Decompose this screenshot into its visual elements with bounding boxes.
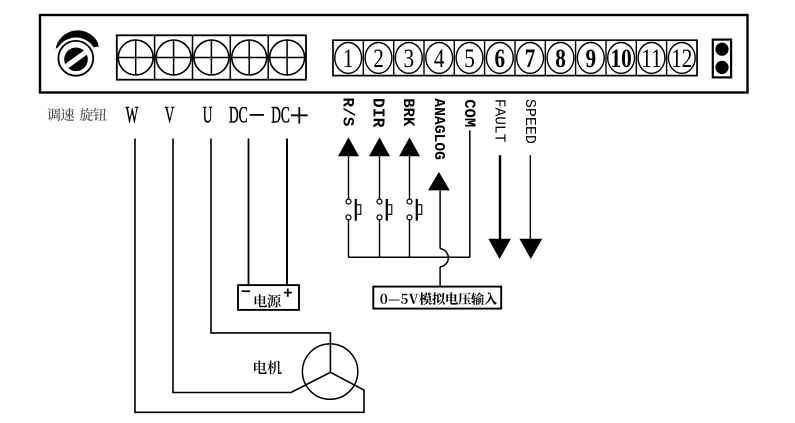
pushbutton switch R/S: lower contact — [346, 215, 351, 220]
terminal pin 4 — [426, 43, 453, 74]
terminal pin 2 — [365, 43, 392, 74]
power supply box (电源) — [238, 285, 299, 310]
driver panel outline — [40, 15, 748, 93]
input arrow DIR — [369, 137, 390, 156]
label 调速旋钮 (speed knob) — [47, 108, 107, 121]
terminal pin 5 — [456, 43, 483, 74]
svg-text:2: 2 — [373, 45, 384, 74]
pushbutton switch DIR: actuator bar — [386, 199, 388, 221]
terminal block separator — [575, 40, 577, 75]
terminal block separator — [267, 35, 269, 79]
svg-text:COM: COM — [460, 99, 478, 127]
svg-text:ANAGLOG: ANAGLOG — [430, 98, 446, 160]
wire DIR lower — [379, 220, 381, 257]
output arrow FAULT — [488, 239, 511, 259]
terminal pin 9 — [577, 43, 604, 74]
svg-text:SPEED: SPEED — [521, 99, 538, 144]
wire ANAGLOG crossover hop — [440, 249, 448, 267]
svg-text:12: 12 — [671, 45, 692, 74]
svg-text:DIR: DIR — [369, 98, 388, 128]
terminal pin 3 — [395, 43, 422, 74]
input arrow R/S — [338, 137, 359, 156]
terminal pin 11 — [638, 43, 665, 74]
svg-text:9: 9 — [585, 45, 596, 74]
wire SPEED — [529, 155, 531, 239]
terminal block separator — [154, 35, 156, 79]
label 电机 — [254, 361, 267, 375]
wire U (phase U to motor) — [211, 139, 330, 373]
analog input box (0-5V模拟电压输入) — [373, 287, 501, 309]
pushbutton switch R/S: button cap — [357, 205, 361, 215]
screw terminal DC- — [232, 40, 267, 75]
common bus wire — [349, 256, 470, 258]
input arrow ANAGLOG — [428, 172, 450, 191]
screw terminal U — [194, 40, 229, 75]
label 电源 — [255, 294, 267, 307]
pushbutton switch DIR: lower contact — [377, 215, 382, 220]
terminal pin 8 — [547, 43, 574, 74]
wire ANAGLOG upper — [439, 190, 441, 248]
potentiometer knob (调速旋钮) rotation arc — [56, 30, 99, 48]
terminal pin 6 — [486, 43, 513, 74]
wire DIR upper — [379, 156, 381, 199]
wire FAULT — [499, 155, 501, 239]
svg-text:DC: DC — [271, 103, 290, 129]
screw terminal V — [156, 40, 191, 75]
wire COM — [469, 130, 471, 257]
terminal pin 1 — [335, 43, 362, 74]
wire ANAGLOG lower — [439, 267, 441, 287]
jumper connector J1 — [713, 40, 731, 78]
svg-text:8: 8 — [555, 45, 566, 74]
terminal block separator — [393, 40, 395, 75]
terminal block separator — [362, 40, 364, 75]
terminal block separator — [484, 40, 486, 75]
svg-text:11: 11 — [641, 45, 661, 74]
pushbutton switch R/S: actuator bar — [355, 199, 357, 221]
output arrow SPEED — [519, 239, 542, 259]
pushbutton switch DIR: button cap — [388, 205, 392, 215]
pushbutton switch BRK: lower contact — [407, 215, 412, 220]
terminal block separator — [453, 40, 455, 75]
terminal pin 10 — [608, 43, 635, 74]
terminal block separator — [666, 40, 668, 75]
terminal block separator — [229, 35, 231, 79]
svg-text:7: 7 — [525, 45, 536, 74]
svg-text:5: 5 — [464, 45, 475, 74]
svg-text:V: V — [165, 103, 175, 129]
pushbutton switch R/S: upper contact — [346, 199, 351, 204]
terminal block separator — [605, 40, 607, 75]
svg-text:3: 3 — [403, 45, 414, 74]
svg-text:W: W — [126, 103, 139, 129]
svg-text:10: 10 — [611, 45, 632, 74]
input arrow BRK — [399, 137, 420, 156]
svg-text:6: 6 — [494, 45, 505, 74]
wire DC+ — [286, 139, 288, 286]
screw terminal W — [118, 40, 153, 75]
plus polarity mark — [284, 289, 292, 297]
terminal pin 7 — [517, 43, 544, 74]
minus polarity mark — [242, 290, 251, 292]
svg-text:4: 4 — [434, 45, 445, 74]
terminal pin 12 — [668, 43, 695, 74]
wire R/S upper — [348, 156, 350, 199]
pushbutton switch BRK: actuator bar — [416, 199, 418, 221]
potentiometer knob outer ring — [58, 41, 93, 76]
svg-text:U: U — [203, 103, 213, 129]
motor M (电机) — [302, 344, 357, 399]
svg-text:1: 1 — [343, 45, 354, 74]
terminal block separator — [544, 40, 546, 75]
wire W (phase W to motor) — [135, 139, 364, 413]
svg-text:DC: DC — [229, 103, 248, 129]
label 0-5V模拟电压输入 — [380, 294, 387, 304]
power terminal block (W V U DC- DC+) — [117, 35, 306, 79]
wire R/S lower — [348, 220, 350, 257]
wire BRK lower — [409, 220, 411, 257]
svg-text:FAULT: FAULT — [491, 99, 507, 143]
terminal block separator — [192, 35, 194, 79]
terminal block separator — [514, 40, 516, 75]
screw terminal DC+ — [270, 40, 305, 75]
potentiometer knob slotted shaft — [62, 48, 91, 72]
terminal block center line — [117, 57, 306, 59]
wire BRK upper — [409, 156, 411, 199]
pushbutton switch BRK: button cap — [418, 205, 422, 215]
terminal block separator — [423, 40, 425, 75]
svg-text:R/S: R/S — [339, 97, 357, 126]
wire DC- — [248, 139, 250, 286]
terminal block separator — [635, 40, 637, 75]
svg-text:BRK: BRK — [399, 98, 417, 127]
signal terminal block (1-12) — [333, 40, 697, 75]
wire V (phase V to motor) — [173, 139, 330, 393]
pushbutton switch BRK: upper contact — [407, 199, 412, 204]
pushbutton switch DIR: upper contact — [377, 199, 382, 204]
